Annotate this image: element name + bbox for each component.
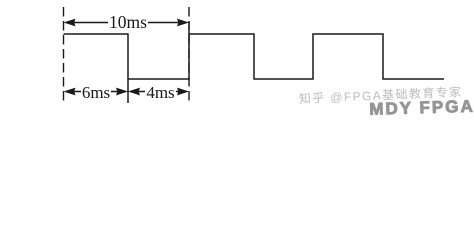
dimension arrow 6ms line left <box>72 91 81 93</box>
dashed reference line right (t=10ms) <box>188 7 190 104</box>
dimension arrow 6ms head left <box>64 88 76 96</box>
dimension arrow 10ms head right <box>177 19 189 27</box>
dimension arrow 4ms line left <box>137 91 145 93</box>
dimension arrow 10ms line left <box>72 22 108 24</box>
dashed reference line left (t=0) <box>63 7 65 105</box>
dimension arrow 4ms head right <box>177 88 189 96</box>
svg-text:6ms: 6ms <box>82 83 110 102</box>
dimension arrow 10ms line right <box>148 22 180 24</box>
wire waveform square wave <box>64 34 445 79</box>
wire right reference solid bridge <box>188 21 190 35</box>
dimension arrow 6ms head right <box>116 88 128 96</box>
svg-text:4ms: 4ms <box>146 83 174 102</box>
dimension arrow 10ms head left <box>64 19 76 27</box>
node divider at t=6ms extension line <box>127 79 129 103</box>
dimension arrow 6ms line right <box>111 91 119 93</box>
svg-text:10ms: 10ms <box>109 12 147 32</box>
dimension arrow 4ms head left <box>128 88 140 96</box>
dimension arrow 4ms line right <box>176 91 180 93</box>
svg-text:MDY FPGA: MDY FPGA <box>369 97 474 119</box>
